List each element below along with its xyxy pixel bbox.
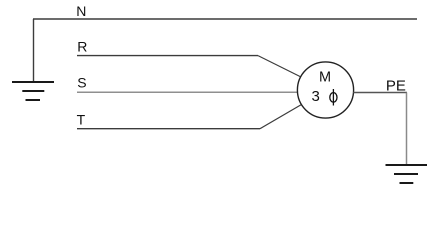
wire N (horizontal) bbox=[33, 18, 417, 20]
wire R diagonal to motor bbox=[258, 56, 301, 77]
svg-text:T: T bbox=[77, 112, 86, 128]
svg-text:R: R bbox=[77, 38, 87, 54]
svg-text:M: M bbox=[319, 70, 331, 86]
svg-text:N: N bbox=[76, 3, 86, 19]
svg-text:PE: PE bbox=[386, 77, 406, 94]
wire motor to PE corner bbox=[353, 92, 407, 94]
svg-text:S: S bbox=[77, 74, 86, 90]
wire T horizontal bbox=[77, 128, 260, 130]
ground (left earth symbol) bbox=[12, 82, 54, 100]
wire PE vertical down bbox=[406, 93, 408, 165]
motor value label 3-phase bbox=[312, 88, 338, 106]
phi symbol drawn bbox=[330, 93, 337, 103]
svg-text:3: 3 bbox=[312, 88, 320, 105]
ground (right earth symbol) bbox=[386, 165, 428, 183]
wire from N down to earth bbox=[33, 19, 35, 82]
wire S horizontal to motor bbox=[77, 91, 298, 93]
wire R horizontal bbox=[77, 55, 258, 57]
wire T diagonal to motor bbox=[260, 105, 302, 129]
motor M1 (3-phase) circle bbox=[297, 62, 353, 118]
